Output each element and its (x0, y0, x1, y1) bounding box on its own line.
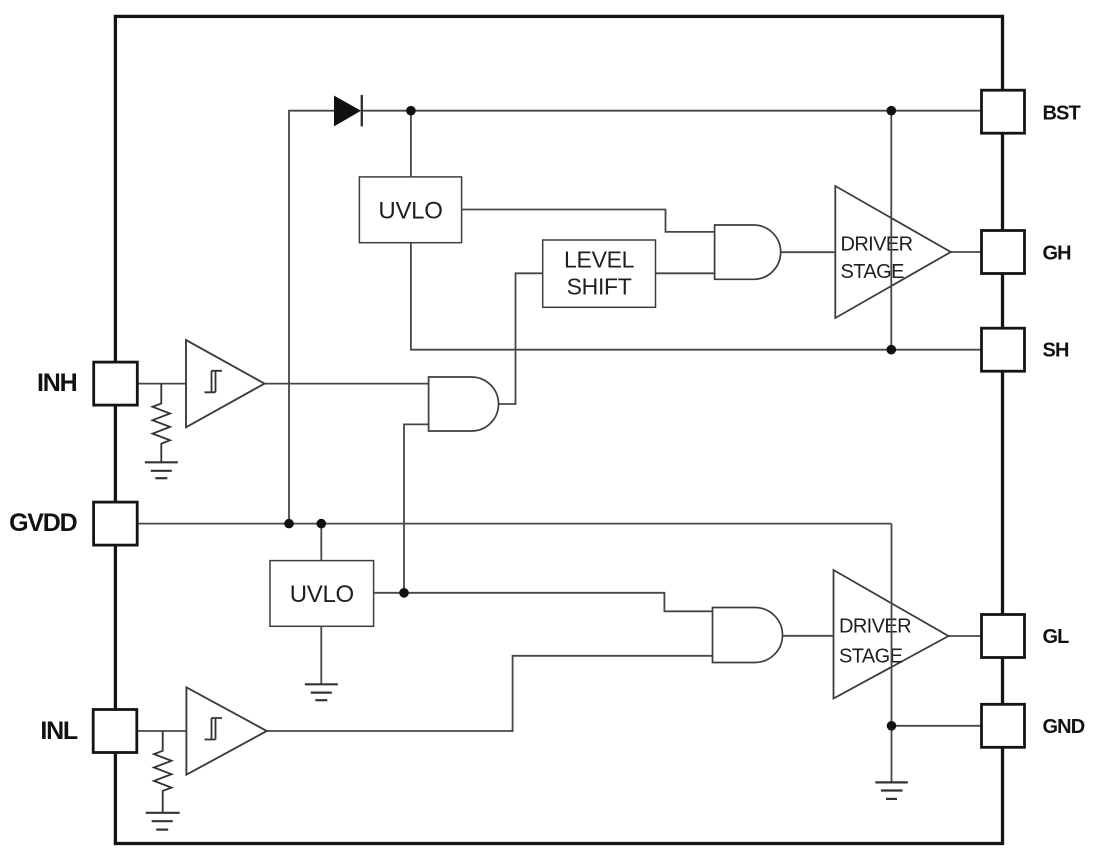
schmitt buffer INL (186, 687, 266, 774)
junction BST / UVLO U1 (406, 106, 416, 116)
wire UVLO U2 output jog to AND A3 (374, 593, 713, 612)
pin BST (982, 90, 1025, 133)
wire schmitt buffer INL output to AND A3 (267, 656, 713, 731)
svg-text:INH: INH (37, 369, 77, 397)
svg-text:SHIFT: SHIFT (567, 274, 632, 300)
schmitt buffer INH (186, 340, 265, 427)
pin GL (982, 615, 1025, 658)
junction GND node (887, 721, 897, 731)
IC boundary (115, 16, 1002, 843)
resistor R1 (INH pulldown) (153, 384, 171, 463)
pin INH (94, 362, 138, 405)
wire BST net (diode cathode to BST pin) (362, 110, 982, 112)
svg-text:GND: GND (1043, 716, 1085, 738)
wire UVLO U1 output jog to AND A1 (462, 210, 715, 232)
junction GVDD / UVLO U2 (317, 519, 327, 529)
ground (INL pulldown) (146, 813, 180, 830)
svg-text:DRIVER: DRIVER (841, 234, 913, 256)
svg-text:BST: BST (1043, 103, 1081, 125)
pin GH (982, 231, 1025, 274)
ground (INH pulldown) (145, 462, 178, 478)
wire driver stage output to GL pin (949, 635, 983, 637)
junction GVDD / diode branch (284, 519, 294, 529)
ground (UVLO U2) (305, 684, 338, 700)
svg-text:GL: GL (1043, 626, 1070, 648)
wire GVDD riser to bootstrap diode anode (289, 111, 335, 524)
wire UVLO U2 ground stem (320, 626, 322, 684)
svg-text:STAGE: STAGE (839, 646, 903, 668)
AND gate A1 high side (715, 225, 781, 279)
junction SH net (887, 345, 897, 355)
wire INL pin to schmitt buffer (137, 730, 187, 732)
ground (low side driver return) (875, 782, 908, 799)
svg-text:DRIVER: DRIVER (839, 616, 911, 638)
bootstrap diode D1 (335, 95, 362, 127)
pin SH (982, 328, 1025, 371)
wire driver stage output to GH pin (951, 251, 982, 253)
svg-text:INL: INL (40, 717, 78, 745)
AND gate A3 low side (713, 608, 783, 663)
driver stage high side (835, 186, 951, 318)
wire GVDD branch down to GND node (crosses driver stage) (891, 524, 893, 726)
wire schmitt buffer output to AND A2 (265, 383, 429, 385)
wire level shift output to AND A1 (656, 272, 715, 274)
wire AND A1 output to driver stage (781, 251, 836, 253)
svg-text:GVDD: GVDD (9, 509, 77, 537)
resistor R2 (INL pulldown) (154, 731, 172, 813)
UVLO U1 block (359, 177, 461, 243)
svg-text:GH: GH (1043, 243, 1072, 265)
svg-text:STAGE: STAGE (841, 261, 905, 283)
wire GND node to GND pin (892, 725, 983, 727)
pin INL (93, 710, 137, 753)
svg-text:SH: SH (1043, 340, 1069, 362)
svg-text:UVLO: UVLO (378, 197, 442, 224)
pin GND (982, 704, 1025, 747)
wire GND node ground stem (891, 726, 893, 783)
wire AND A2 output up to level shift input (497, 273, 543, 404)
svg-text:UVLO: UVLO (290, 581, 354, 608)
wire GVDD node to UVLO U2 (320, 524, 322, 561)
wire AND A3 output to driver stage (783, 635, 834, 637)
driver stage low side (834, 570, 949, 699)
level shift block (543, 240, 656, 307)
wire BST net to SH net (crosses driver stage) (890, 111, 892, 350)
AND gate A2 input interlock (429, 377, 499, 431)
wire UVLO U2 output branch to AND A2 (404, 424, 428, 592)
pin GVDD (94, 502, 138, 545)
wire INH pin to schmitt buffer (137, 383, 186, 385)
UVLO U2 block (270, 561, 374, 627)
svg-text:LEVEL: LEVEL (564, 247, 635, 273)
wire GVDD net (horizontal to bottom driver branch) (137, 523, 892, 525)
wire BST node to UVLO U1 (410, 111, 412, 177)
junction BST / SH riser top (887, 106, 897, 116)
junction UVLO U2 output branch (399, 588, 409, 598)
wire UVLO U1 reference to SH net (411, 243, 982, 350)
